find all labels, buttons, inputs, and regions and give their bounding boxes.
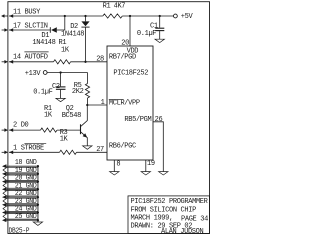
wire SLCTIN — [9, 29, 50, 31]
node junction GND bus pin 23 — [37, 204, 39, 206]
svg-text:2 D0: 2 D0 — [13, 121, 29, 129]
svg-text:RB6/PGC: RB6/PGC — [109, 142, 136, 150]
wire pin 20 VDD — [129, 16, 131, 46]
wire arrowhead inside (BUSY) — [9, 14, 13, 18]
ground under C1 — [155, 39, 164, 42]
ground pin 19 — [141, 172, 150, 175]
node junction D2 anode on pin28 wire — [84, 61, 86, 63]
sheet-pin arrow outside border (AUTOFD) — [2, 60, 8, 64]
wire GND pin 19 — [9, 173, 38, 175]
svg-text:PIC18F252 PROGRAMMER: PIC18F252 PROGRAMMER — [131, 198, 209, 206]
wire +13V down to R5 — [87, 73, 89, 84]
svg-text:21 GND: 21 GND — [15, 182, 37, 190]
+5V terminal circle — [174, 14, 178, 18]
ground under Q2 emitter — [83, 146, 92, 149]
sheet-pin arrow GND21 — [2, 187, 10, 191]
wire +5V rail right of R1 — [122, 15, 173, 17]
svg-text:20: 20 — [121, 40, 129, 48]
node junction GND bus pin 21 — [37, 188, 39, 190]
wire GND pin 20 — [9, 181, 38, 183]
sheet-pin arrow GND20 — [2, 180, 10, 184]
sheet-pin arrow outside border (BUSY) — [1, 14, 8, 18]
node junction D2 on rail — [84, 15, 86, 17]
capacitor C2 — [56, 87, 66, 89]
wire D0 resistor to Q2 base — [57, 129, 80, 131]
node junction GND bus pin 18 — [37, 165, 39, 167]
resistor R3 1K on STROBE line — [60, 150, 77, 154]
overline AUTOFD — [24, 51, 48, 53]
svg-text:R1: R1 — [103, 3, 111, 11]
wire MCLR to pin 1 — [87, 104, 107, 106]
wire GND pin 18 — [9, 165, 38, 167]
wire STROBE to pin 27 — [77, 151, 108, 153]
hierarchical label box 19 GND — [3, 167, 38, 173]
sheet-pin arrow GND24 — [2, 211, 10, 215]
svg-text:1K: 1K — [61, 47, 70, 55]
node junction C2 on +13V rail — [59, 71, 61, 73]
wire GND pin 22 — [9, 196, 38, 198]
wire C2 branch down — [60, 73, 62, 87]
svg-text:1N4148: 1N4148 — [61, 30, 84, 38]
svg-text:11 BUSY: 11 BUSY — [13, 8, 41, 16]
svg-text:1K: 1K — [44, 112, 53, 120]
svg-text:C2: C2 — [52, 83, 60, 91]
wire GND pin 25 — [9, 219, 38, 221]
node junction GND bus pin 24 — [37, 211, 39, 213]
svg-text:1K: 1K — [60, 135, 69, 143]
sheet-pin arrow GND25 — [2, 218, 10, 222]
svg-text:ALAN JUDSON: ALAN JUDSON — [161, 228, 204, 236]
svg-text:0.1µF: 0.1µF — [33, 88, 52, 96]
svg-text:FROM SILICON CHIP: FROM SILICON CHIP — [131, 206, 197, 214]
svg-text:+13V: +13V — [25, 70, 42, 78]
wire arrowhead inside (AUTOFD) — [9, 60, 13, 64]
svg-text:1N4148: 1N4148 — [32, 39, 55, 47]
wire pin 26 RB5/PGM — [153, 122, 163, 172]
overline MCLR — [109, 99, 124, 101]
wire R5 to MCLR node — [87, 98, 89, 105]
svg-text:PIC18F252: PIC18F252 — [113, 69, 148, 77]
svg-text:4K7: 4K7 — [114, 3, 126, 11]
ground pin 26 — [159, 172, 168, 175]
sheet-pin arrow GND19 — [2, 172, 10, 176]
title block box — [128, 196, 210, 234]
node junction GND bus pin 20 — [37, 180, 39, 182]
diode D2 — [81, 16, 89, 62]
svg-text:27: 27 — [96, 146, 104, 154]
op-amp U1 chip body PIC18F252 — [107, 46, 153, 160]
svg-text:1: 1 — [101, 99, 105, 107]
svg-text:MCLR/VPP: MCLR/VPP — [109, 100, 140, 108]
diode D1 — [50, 16, 65, 33]
wire GND pin 23 — [9, 204, 38, 206]
wire AUTOFD to pin 28 — [71, 61, 108, 63]
hierarchical label box 24 GND — [3, 206, 38, 212]
wire C1 branch down — [159, 16, 161, 28]
svg-text:MARCH 1999,: MARCH 1999, — [131, 215, 173, 223]
sheet-pin arrow outside border (SLCTIN) — [2, 28, 8, 32]
GND bus vertical wire — [37, 166, 39, 222]
node junction GND bus pin 25 — [37, 219, 39, 221]
svg-text:0.1µF: 0.1µF — [137, 30, 156, 38]
hierarchical label box 21 GND — [3, 183, 38, 189]
sheet-pin arrow GND22 — [2, 195, 10, 199]
svg-text:2K2: 2K2 — [72, 88, 84, 96]
wire C1 to ground — [159, 31, 161, 39]
+13V terminal circle — [43, 71, 47, 75]
hierarchical label box 23 GND — [3, 198, 38, 204]
node junction GND bus pin 19 — [37, 173, 39, 175]
svg-text:RB7/PGD: RB7/PGD — [109, 54, 136, 62]
svg-text:19: 19 — [147, 160, 155, 168]
hierarchical label box 25 GND — [3, 214, 38, 220]
sheet-pin arrow outside border (D0) — [2, 128, 8, 132]
resistor R5 2K2 — [85, 84, 89, 99]
svg-text:14 AUTOFD: 14 AUTOFD — [13, 53, 48, 61]
resistor R1 4K7 — [103, 14, 123, 18]
svg-text:1 STROBE: 1 STROBE — [13, 145, 44, 153]
sheet-pin arrow GND23 — [2, 203, 10, 207]
wire arrowhead inside (SLCTIN) — [9, 28, 13, 32]
ground under C2 — [56, 98, 65, 101]
node junction D1 riser on rail — [64, 15, 66, 17]
svg-text:8: 8 — [116, 161, 120, 169]
svg-text:25 GND: 25 GND — [15, 213, 37, 221]
sheet-pin arrow GND18 — [2, 164, 10, 168]
wire GND pin 21 — [9, 188, 38, 190]
node junction MCLR — [86, 104, 88, 106]
wire BUSY rail left of R1 — [9, 15, 103, 17]
resistor R1 1K on AUTOFD line — [54, 60, 71, 64]
wire arrowhead inside (STROBE) — [9, 151, 13, 155]
wire arrowhead inside (D0) — [9, 128, 13, 132]
wire D0 left of resistor — [9, 129, 41, 131]
svg-text:28: 28 — [96, 55, 104, 63]
capacitor C1 — [155, 28, 164, 30]
transistor Q2 — [81, 105, 88, 146]
border frame — [8, 2, 210, 234]
ground pin 8 — [110, 172, 119, 175]
svg-text:DB25-P: DB25-P — [9, 227, 30, 235]
wire STROBE left of resistor — [9, 151, 60, 153]
node junction C1 on rail — [159, 15, 161, 17]
hierarchical label box 20 GND — [3, 175, 38, 181]
svg-text:BC548: BC548 — [62, 112, 81, 120]
wire pin 19 — [145, 160, 147, 171]
svg-text:+5V: +5V — [181, 13, 194, 21]
node junction GND bus pin 22 — [37, 196, 39, 198]
wire C2 to ground — [60, 90, 62, 98]
svg-text:RB5/PGM: RB5/PGM — [124, 116, 151, 124]
sheet-pin arrow outside border (STROBE) — [2, 151, 8, 155]
svg-text:17 SLCTIN: 17 SLCTIN — [13, 22, 48, 30]
ground at GND bus bottom — [33, 222, 42, 225]
wire +13V rail — [47, 72, 87, 74]
wire AUTOFD left of resistor — [9, 61, 54, 63]
resistor R1 1K on D0 line — [41, 128, 58, 132]
svg-text:26: 26 — [155, 116, 163, 124]
node junction pin20 on rail — [129, 15, 131, 17]
wire GND pin 24 — [9, 212, 38, 214]
hierarchical label box 22 GND — [3, 191, 38, 197]
overline STROBE — [24, 143, 46, 145]
wire pin 8 — [113, 160, 115, 171]
